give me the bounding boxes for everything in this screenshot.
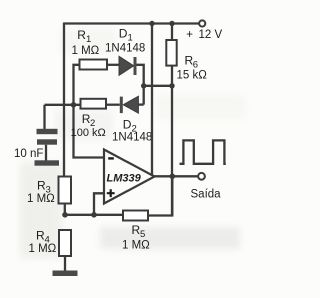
svg-text:1N4148: 1N4148 bbox=[112, 132, 152, 144]
op-amp minus sign bbox=[108, 157, 114, 159]
svg-text:5: 5 bbox=[140, 229, 145, 240]
ground bar below R4 bbox=[53, 271, 78, 277]
wire D2 right leg bbox=[138, 103, 143, 105]
node dot RC junction bbox=[71, 102, 77, 108]
node dot on output line bbox=[169, 83, 174, 88]
svg-text:12 V: 12 V bbox=[199, 29, 223, 41]
wire R1 to D1 bbox=[107, 64, 119, 66]
svg-text:Saída: Saída bbox=[191, 188, 222, 200]
svg-text:1 MΩ: 1 MΩ bbox=[29, 243, 57, 255]
wire R1 left leg bbox=[74, 65, 80, 105]
resistor R4 bbox=[59, 230, 71, 256]
svg-text:10 nF: 10 nF bbox=[14, 148, 43, 160]
node dot R3/R4 junction bbox=[62, 212, 68, 218]
resistor R6 bbox=[166, 40, 176, 66]
scan blotch band left bbox=[20, 162, 62, 258]
node dot R6 top on rail bbox=[169, 21, 174, 26]
op-amp U1 LM339 triangle bbox=[104, 150, 155, 204]
wire R3 bottom to divider node bbox=[64, 204, 66, 215]
wire V+ line to op-amp bbox=[151, 23, 153, 176]
wire D2 to R2 bbox=[106, 104, 120, 106]
wire R4 to ground bbox=[64, 256, 66, 271]
resistor R2 bbox=[81, 99, 107, 109]
wire left rail down to R3 bbox=[63, 23, 65, 177]
svg-text:D: D bbox=[119, 27, 128, 41]
svg-text:+: + bbox=[186, 29, 193, 41]
capacitor C1 top lead bbox=[43, 105, 45, 129]
wire tap up to + input bbox=[94, 193, 104, 215]
resistor R3 bbox=[59, 177, 72, 204]
node dot output bbox=[170, 174, 176, 180]
square wave symbol bbox=[180, 140, 226, 163]
svg-text:D: D bbox=[123, 118, 132, 132]
ground bar below capacitor bbox=[35, 160, 60, 165]
node dot diode junction bbox=[141, 83, 146, 88]
wire R5 right up to output bbox=[148, 176, 172, 215]
wire top +12V rail bbox=[64, 22, 199, 24]
terminal Saída open circle bbox=[198, 173, 205, 180]
svg-text:1: 1 bbox=[86, 34, 91, 45]
wire op-amp output to Saída bbox=[155, 175, 199, 177]
diode D2 bbox=[123, 96, 138, 113]
wire R6 top lead bbox=[171, 23, 173, 41]
wire D1 cathode to right leg bbox=[137, 65, 144, 105]
wire R6 bottom to output node bbox=[171, 66, 173, 216]
resistor R1 bbox=[80, 60, 108, 70]
op-amp plus sign bbox=[107, 189, 115, 197]
capacitor C1 plates bbox=[37, 129, 58, 134]
capacitor C1 bottom lead bbox=[45, 145, 47, 161]
scan blotch right mid bbox=[155, 95, 245, 120]
svg-text:1 MΩ: 1 MΩ bbox=[122, 240, 150, 252]
svg-text:LM339: LM339 bbox=[107, 173, 142, 185]
scan blotch R2 area bbox=[55, 110, 113, 140]
wire RC node horizontal bbox=[45, 104, 81, 106]
svg-text:1 MΩ: 1 MΩ bbox=[72, 45, 100, 57]
terminal +12V open circle bbox=[199, 20, 205, 26]
diode D1 bbox=[119, 56, 134, 75]
svg-text:15 kΩ: 15 kΩ bbox=[177, 69, 208, 81]
svg-text:R: R bbox=[77, 28, 86, 42]
svg-text:1N4148: 1N4148 bbox=[105, 42, 145, 54]
scan blotch R1 label area bbox=[60, 30, 115, 54]
svg-text:100 kΩ: 100 kΩ bbox=[71, 127, 106, 139]
svg-text:1 MΩ: 1 MΩ bbox=[27, 193, 55, 205]
wire diode junction to output line bbox=[144, 85, 172, 87]
resistor R5 bbox=[123, 211, 148, 221]
scan blotch band R5 row bbox=[100, 227, 240, 249]
wire divider node to R5 bbox=[65, 214, 123, 216]
wire minus input from RC node bbox=[74, 105, 105, 158]
node dot V+ on rail bbox=[149, 21, 154, 26]
node dot plus-input tap bbox=[91, 212, 97, 218]
